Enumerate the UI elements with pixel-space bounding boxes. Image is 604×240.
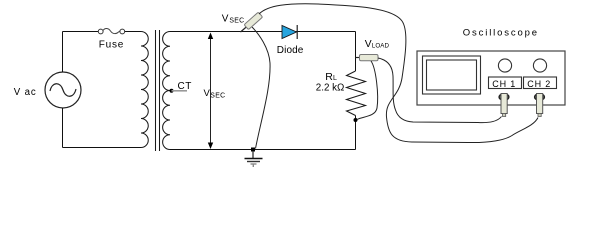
svg-text:CT: CT (178, 81, 192, 92)
fuse F1 right terminal (120, 29, 125, 34)
Vload probe tip (356, 57, 361, 59)
Vsec probe body (244, 12, 263, 30)
knob 2 (533, 59, 546, 72)
wire left vertical bottom (62, 108, 64, 148)
CH1 plug (501, 94, 507, 114)
Vsec probe ground lead (252, 27, 270, 149)
Vload probe body (360, 55, 379, 61)
oscilloscope screen outer (423, 56, 481, 94)
center tap dot (170, 89, 174, 93)
ground junction dot (251, 148, 255, 152)
CH2 box (524, 77, 557, 89)
svg-text:V: V (222, 14, 229, 25)
diode cathode bar (296, 25, 298, 39)
diode D1 (282, 26, 297, 39)
transformer core line 2 (159, 30, 161, 151)
wire fuse to primary (125, 31, 141, 33)
svg-text:L: L (333, 75, 337, 82)
fuse F1 wavy element (103, 28, 120, 33)
transformer T1 primary winding (141, 32, 148, 148)
resistor RL zigzag (347, 71, 366, 116)
oscilloscope body (417, 51, 565, 105)
wire secondary bottom (170, 149, 356, 151)
center tap lead (172, 90, 188, 92)
ground bar 2 (247, 161, 260, 163)
junction dot resistor bottom (354, 118, 358, 122)
wire secondary top (170, 31, 356, 33)
svg-text:Fuse: Fuse (99, 40, 124, 51)
source sine wave (50, 84, 76, 97)
CH1 BNC jack (499, 94, 509, 101)
CH1 box (489, 77, 522, 89)
ground bar 3 (251, 163, 257, 165)
ground tail (252, 164, 254, 167)
ground bar 1 (245, 158, 263, 160)
Vload probe cable to CH1 (378, 58, 502, 123)
fuse F1 left terminal (98, 29, 103, 34)
svg-text:2.2 kΩ: 2.2 kΩ (316, 83, 345, 94)
Vsec probe cable to CH2 (259, 4, 538, 143)
svg-text:CH 1: CH 1 (492, 79, 516, 89)
transformer T1 secondary winding (163, 32, 170, 150)
CH2 BNC jack (535, 94, 545, 101)
svg-text:LOAD: LOAD (372, 43, 390, 50)
svg-text:SEC: SEC (229, 18, 244, 25)
wire right vertical bottom (355, 116, 357, 150)
transformer core line 1 (155, 30, 157, 151)
wire bottom-left horizontal (63, 147, 142, 149)
source V1 circle (45, 72, 81, 108)
svg-text:Oscilloscope: Oscilloscope (463, 27, 539, 38)
Vload probe ground lead (357, 61, 378, 120)
wire left vertical top (62, 32, 64, 73)
Vsec measurement arrow (210, 36, 212, 146)
CH2 plug (537, 94, 543, 114)
svg-text:V ac: V ac (14, 87, 37, 98)
ground stem (252, 151, 254, 158)
svg-text:V: V (365, 39, 372, 50)
wire top-left horizontal (63, 31, 99, 33)
svg-text:Diode: Diode (277, 45, 304, 56)
wire right vertical top (355, 32, 357, 72)
svg-text:SEC: SEC (210, 93, 225, 100)
oscilloscope screen inner (427, 60, 477, 90)
Vsec probe tip (241, 26, 249, 33)
knob 1 (498, 59, 511, 72)
svg-text:CH 2: CH 2 (527, 79, 551, 89)
